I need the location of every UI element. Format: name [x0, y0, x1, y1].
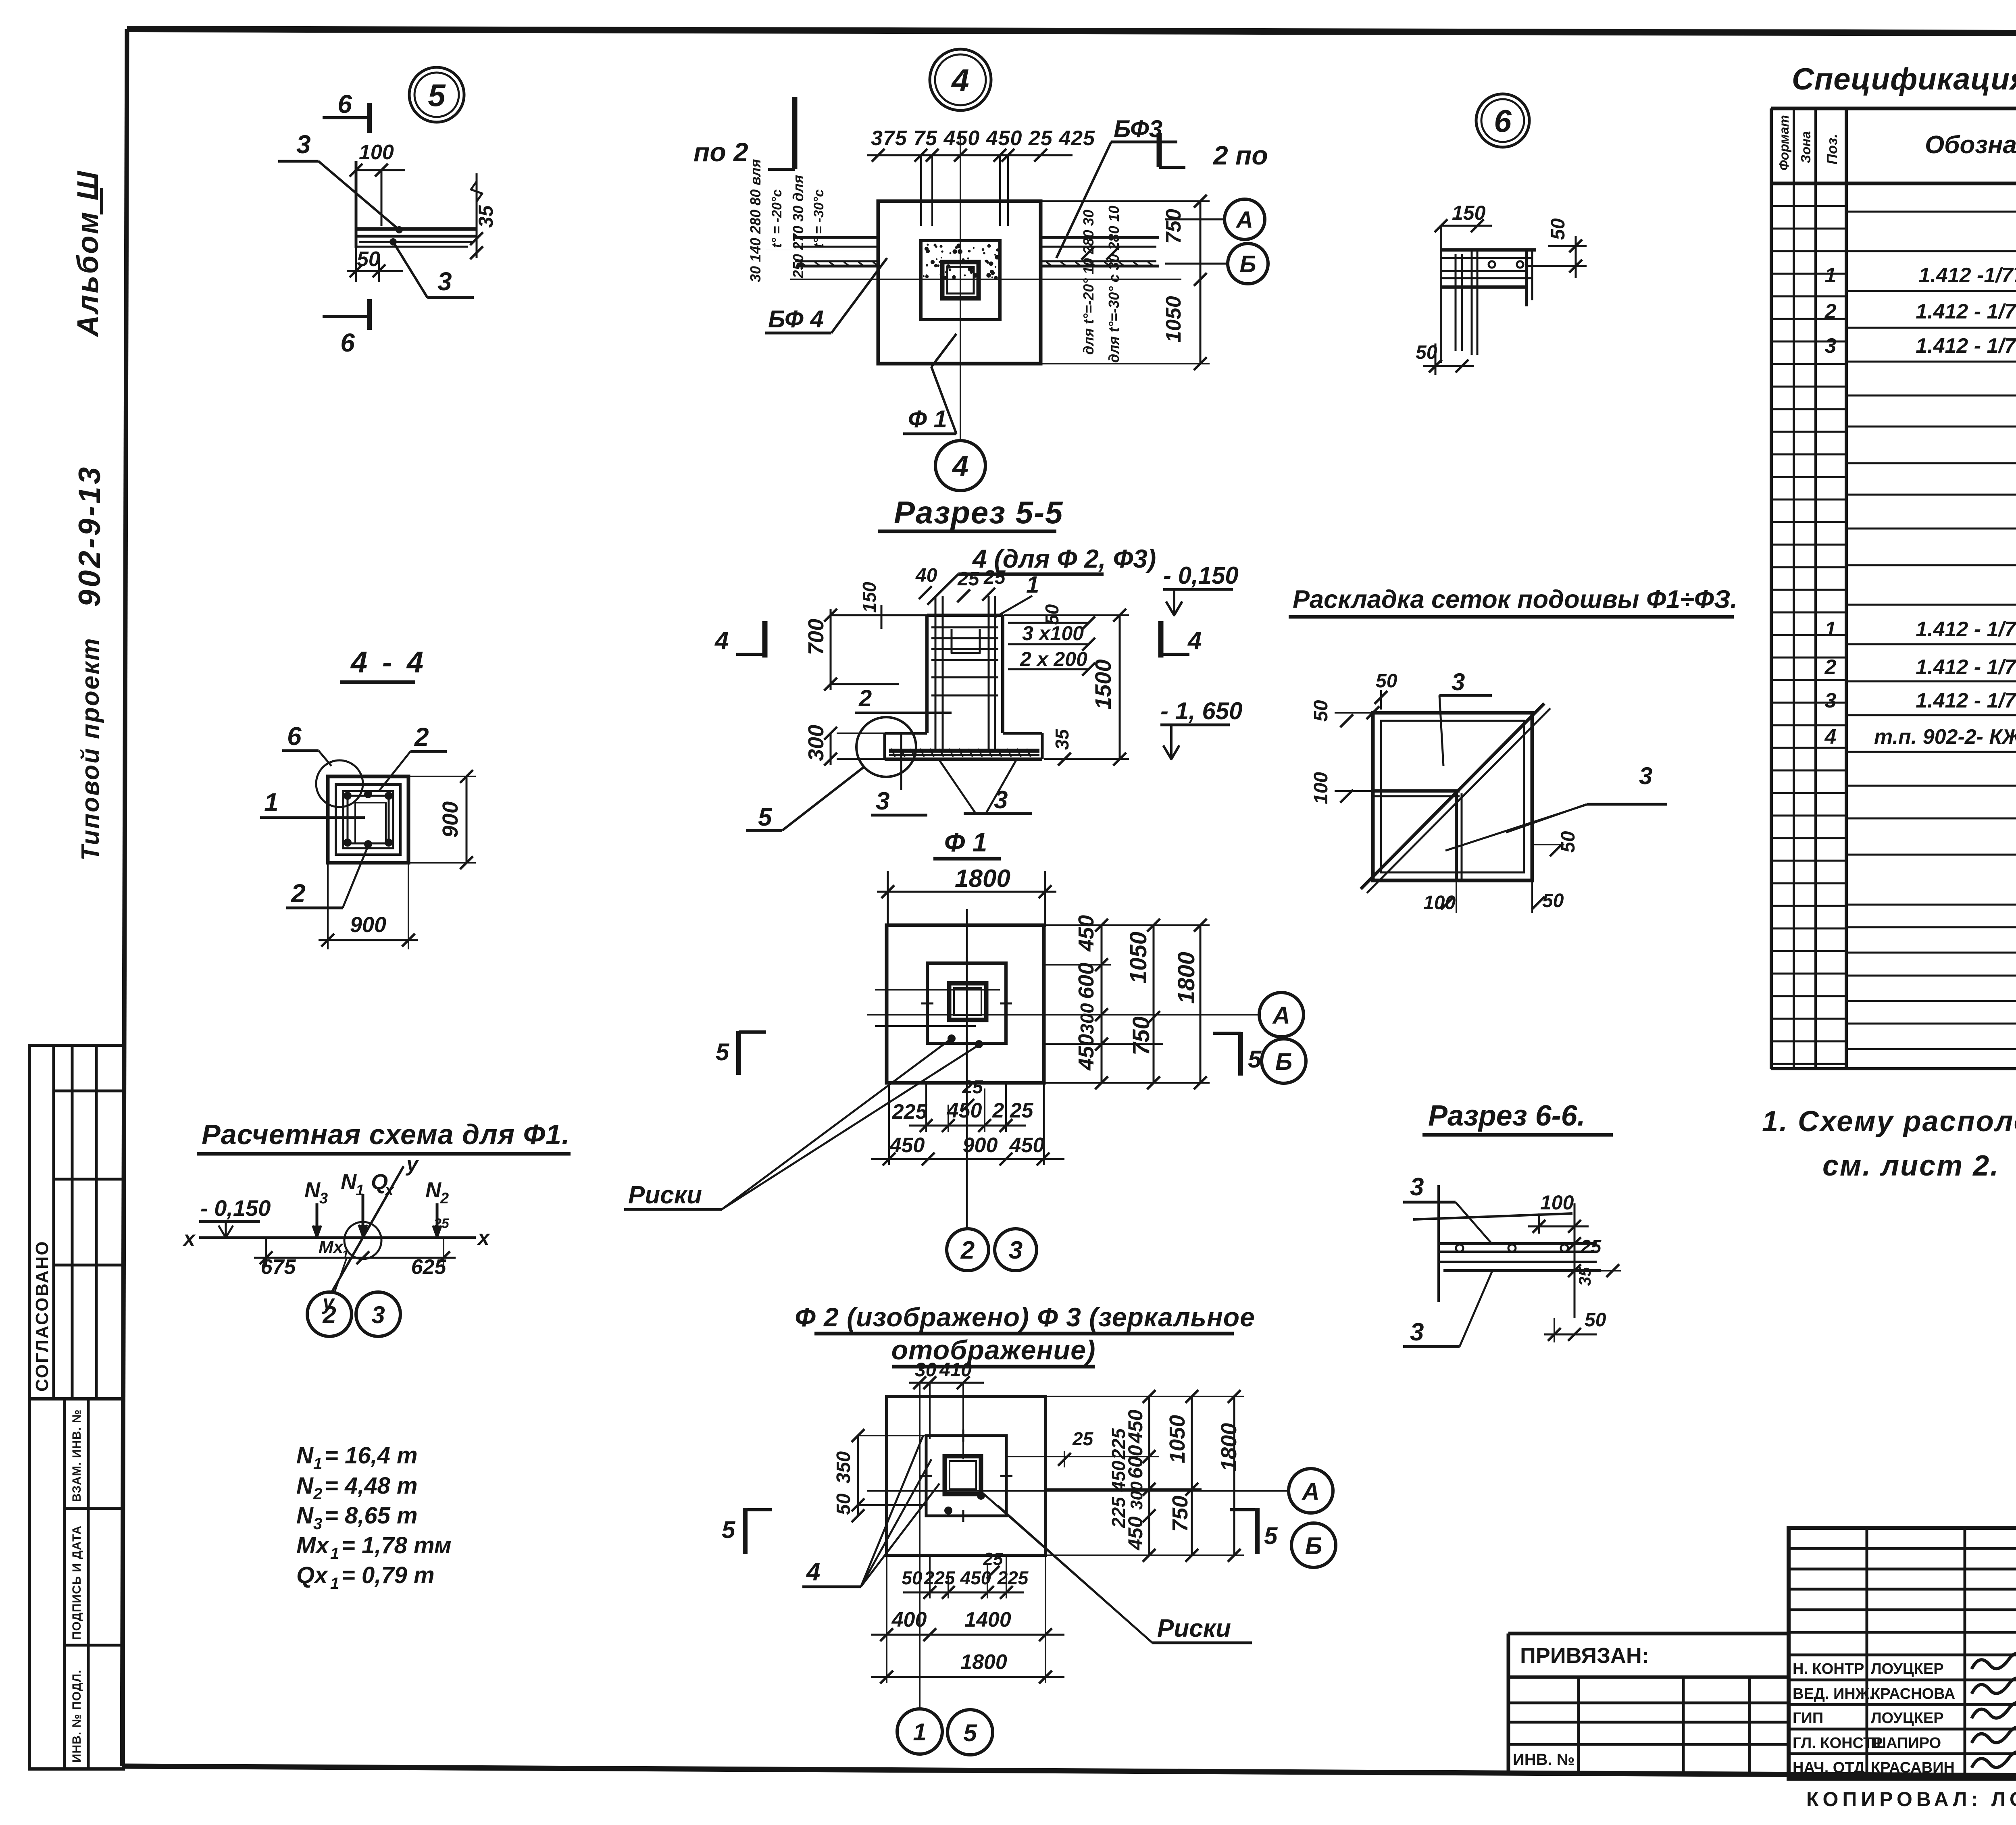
svg-text:3: 3 [1410, 1318, 1424, 1346]
svg-text:1: 1 [1825, 618, 1837, 641]
svg-text:3: 3 [1825, 689, 1837, 712]
svg-text:400: 400 [891, 1608, 927, 1631]
svg-text:1050: 1050 [1125, 932, 1152, 984]
svg-text:6: 6 [1494, 103, 1512, 139]
svg-text:ПРИВЯЗАН:: ПРИВЯЗАН: [1520, 1644, 1649, 1668]
svg-text:БФ 4: БФ 4 [768, 306, 824, 333]
svg-text:150: 150 [1452, 202, 1486, 224]
svg-text:Н. КОНТР: Н. КОНТР [1793, 1661, 1864, 1677]
svg-text:1500: 1500 [1090, 659, 1116, 710]
svg-text:ИНВ. № ПОДЛ.: ИНВ. № ПОДЛ. [70, 1669, 83, 1763]
svg-text:t° = -30°c: t° = -30°c [811, 189, 827, 248]
svg-text:300: 300 [1127, 1482, 1146, 1510]
svg-text:6: 6 [337, 89, 352, 119]
svg-text:700: 700 [804, 619, 828, 655]
svg-text:3: 3 [1639, 762, 1652, 789]
svg-text:Обозначение: Обозначение [1925, 131, 2016, 159]
svg-text:t° = -20°c: t° = -20°c [769, 189, 785, 248]
svg-text:225: 225 [924, 1567, 956, 1588]
svg-text:Типовой проект: Типовой проект [77, 637, 104, 861]
svg-text:1800: 1800 [1217, 1423, 1241, 1471]
svg-text:3: 3 [296, 130, 311, 159]
svg-text:Риски: Риски [1157, 1615, 1231, 1642]
svg-text:3: 3 [1825, 334, 1837, 358]
svg-text:1: 1 [342, 1248, 349, 1261]
svg-text:2: 2 [291, 879, 306, 908]
svg-text:750: 750 [1162, 209, 1185, 244]
svg-text:1: 1 [313, 1455, 322, 1473]
svg-text:375 75 450 450 25 425: 375 75 450 450 25 425 [871, 127, 1095, 150]
svg-text:5: 5 [1264, 1522, 1278, 1549]
svg-text:1: 1 [264, 788, 279, 817]
svg-text:2 по: 2 по [1212, 140, 1268, 170]
svg-text:30 140 280 80 вля: 30 140 280 80 вля [747, 159, 764, 282]
svg-text:4: 4 [1824, 725, 1837, 749]
svg-text:3: 3 [437, 267, 452, 296]
svg-text:1: 1 [1825, 264, 1837, 287]
svg-text:3: 3 [1009, 1236, 1023, 1264]
svg-text:ГИП: ГИП [1793, 1710, 1823, 1727]
svg-text:КРАСАВИН: КРАСАВИН [1871, 1759, 1955, 1776]
svg-text:Разрез 6-6.: Разрез 6-6. [1428, 1100, 1585, 1132]
svg-text:N: N [341, 1170, 357, 1194]
svg-text:1050: 1050 [1165, 1415, 1189, 1463]
svg-text:1400: 1400 [964, 1608, 1011, 1631]
svg-text:Ф 1: Ф 1 [944, 827, 987, 857]
svg-text:= 16,4 т: = 16,4 т [325, 1442, 418, 1469]
svg-text:4: 4 [1187, 627, 1202, 655]
svg-text:35: 35 [1052, 728, 1073, 750]
svg-text:50: 50 [1376, 670, 1397, 692]
svg-text:1: 1 [356, 1182, 364, 1199]
svg-text:225: 225 [997, 1567, 1029, 1588]
svg-text:1050: 1050 [1162, 296, 1185, 343]
svg-text:3: 3 [994, 786, 1008, 814]
svg-text:Б: Б [1239, 251, 1256, 277]
svg-text:4: 4 [714, 627, 729, 655]
svg-text:225: 225 [1108, 1428, 1129, 1460]
svg-text:50: 50 [1310, 700, 1332, 722]
svg-text:- 1, 650: - 1, 650 [1160, 697, 1242, 724]
svg-text:3: 3 [876, 787, 889, 815]
svg-text:1800: 1800 [955, 865, 1010, 893]
svg-text:4: 4 [951, 62, 969, 98]
svg-text:6: 6 [287, 722, 302, 751]
svg-text:КОПИРОВАЛ: ЛОГИНОВА: КОПИРОВАЛ: ЛОГИНОВА [1806, 1788, 2016, 1810]
svg-text:350: 350 [833, 1451, 854, 1484]
svg-text:450: 450 [947, 1099, 982, 1122]
svg-text:25: 25 [957, 568, 980, 590]
svg-text:100: 100 [1423, 892, 1456, 914]
svg-text:НАЧ. ОТД.: НАЧ. ОТД. [1793, 1759, 1869, 1776]
svg-text:Б: Б [1275, 1048, 1292, 1075]
svg-text:225: 225 [892, 1100, 928, 1124]
svg-text:- 0,150: - 0,150 [200, 1195, 271, 1221]
svg-text:х: х [477, 1226, 490, 1250]
svg-text:450: 450 [1009, 1134, 1045, 1157]
svg-text:4: 4 [952, 450, 968, 483]
svg-text:35: 35 [1575, 1267, 1594, 1286]
svg-text:3: 3 [319, 1190, 328, 1207]
svg-text:N: N [296, 1442, 314, 1469]
svg-text:ЛОУЦКЕР: ЛОУЦКЕР [1871, 1710, 1944, 1727]
svg-text:для t°=-30° с 30 280 10: для t°=-30° с 30 280 10 [1106, 206, 1122, 363]
svg-text:6: 6 [340, 328, 355, 357]
svg-text:1.412 - 1/77: 1.412 - 1/77 [1916, 300, 2016, 323]
svg-text:СОГЛАСОВАНО: СОГЛАСОВАНО [32, 1240, 52, 1392]
svg-text:2: 2 [1824, 656, 1837, 679]
svg-text:Раскладка сеток подошвы Ф1÷ФЗ.: Раскладка сеток подошвы Ф1÷ФЗ. [1293, 585, 1737, 614]
svg-text:х: х [182, 1227, 196, 1251]
svg-text:Расчетная схема для Ф1.: Расчетная схема для Ф1. [202, 1119, 570, 1150]
svg-text:902-9-13: 902-9-13 [73, 465, 107, 607]
svg-text:А: А [1272, 1002, 1290, 1029]
svg-text:= 4,48 т: = 4,48 т [325, 1473, 418, 1499]
svg-text:900: 900 [350, 913, 386, 937]
svg-text:3: 3 [1410, 1173, 1424, 1201]
svg-text:ПОДПИСЬ И ДАТА: ПОДПИСЬ И ДАТА [70, 1525, 83, 1640]
svg-text:ИНВ. №: ИНВ. № [1513, 1751, 1574, 1769]
svg-text:2: 2 [960, 1236, 975, 1264]
svg-text:2 25: 2 25 [992, 1099, 1033, 1122]
svg-text:750: 750 [1168, 1496, 1192, 1532]
svg-text:225: 225 [1108, 1496, 1129, 1528]
svg-text:Qх: Qх [296, 1562, 329, 1588]
svg-text:Разрез 5-5: Разрез 5-5 [894, 495, 1063, 530]
svg-text:50: 50 [833, 1493, 854, 1515]
svg-text:т.п. 902-2- КЖИ А1: т.п. 902-2- КЖИ А1 [1874, 725, 2016, 749]
svg-text:Риски: Риски [628, 1181, 702, 1209]
svg-text:КРАСНОВА: КРАСНОВА [1871, 1686, 1955, 1702]
svg-text:25: 25 [1072, 1428, 1094, 1449]
svg-text:5: 5 [428, 77, 446, 113]
svg-text:4 - 4: 4 - 4 [350, 645, 427, 679]
svg-text:900: 900 [963, 1134, 998, 1157]
svg-text:900: 900 [438, 801, 462, 838]
svg-text:Ф 2 (изображено) Ф 3 (зеркальн: Ф 2 (изображено) Ф 3 (зеркальное [795, 1302, 1255, 1332]
svg-text:4: 4 [806, 1558, 820, 1586]
svg-text:Мх: Мх [319, 1237, 344, 1257]
svg-text:1.412 - 1/77: 1.412 - 1/77 [1916, 656, 2016, 679]
svg-text:25: 25 [1580, 1236, 1602, 1257]
svg-text:675: 675 [261, 1255, 296, 1279]
svg-text:5: 5 [758, 803, 773, 831]
svg-text:А: А [1301, 1478, 1319, 1505]
svg-text:300: 300 [1077, 1003, 1098, 1034]
svg-text:1: 1 [913, 1719, 926, 1746]
svg-text:1800: 1800 [1173, 952, 1200, 1004]
svg-text:N: N [296, 1473, 314, 1499]
svg-text:ЛОУЦКЕР: ЛОУЦКЕР [1871, 1661, 1944, 1677]
svg-text:2: 2 [440, 1190, 449, 1207]
svg-text:1.412 - 1/77: 1.412 - 1/77 [1916, 618, 2016, 641]
svg-text:625: 625 [411, 1255, 447, 1279]
svg-text:Формат: Формат [1776, 115, 1791, 171]
svg-text:5: 5 [963, 1719, 977, 1746]
svg-text:750: 750 [1128, 1016, 1154, 1055]
svg-text:1.412 - 1/77: 1.412 - 1/77 [1916, 334, 2016, 358]
svg-text:25: 25 [983, 567, 1006, 588]
svg-text:25: 25 [983, 1549, 1003, 1569]
svg-text:50: 50 [1542, 890, 1564, 911]
svg-text:А: А [1235, 207, 1253, 233]
svg-text:для t°=-20° 10 280 30: для t°=-20° 10 280 30 [1080, 210, 1097, 355]
svg-text:450: 450 [1074, 1034, 1098, 1071]
svg-text:25: 25 [962, 1076, 983, 1097]
svg-text:5: 5 [716, 1038, 730, 1065]
svg-text:40: 40 [915, 565, 937, 586]
svg-text:2: 2 [313, 1485, 322, 1503]
svg-text:см. лист 2.: см. лист 2. [1822, 1150, 1999, 1182]
svg-text:35: 35 [475, 205, 497, 228]
svg-text:= 8,65 т: = 8,65 т [325, 1502, 418, 1529]
svg-text:Зона: Зона [1798, 131, 1813, 163]
svg-text:БФ3: БФ3 [1114, 115, 1162, 142]
svg-text:3: 3 [1452, 668, 1465, 695]
svg-text:50: 50 [1558, 831, 1579, 853]
svg-text:150: 150 [859, 582, 880, 613]
svg-text:Альбом Ш: Альбом Ш [71, 170, 104, 337]
svg-text:ГЛ. КОНСТР: ГЛ. КОНСТР [1793, 1735, 1883, 1752]
svg-text:по 2: по 2 [694, 137, 748, 167]
svg-text:ВЗАМ. ИНВ. №: ВЗАМ. ИНВ. № [70, 1409, 83, 1502]
svg-text:2: 2 [322, 1301, 336, 1328]
svg-text:50: 50 [1547, 218, 1569, 240]
svg-text:1. Схему расположения фундамен: 1. Схему расположения фундаментов Ф1÷Ф3 [1762, 1105, 2016, 1138]
svg-text:Спецификация монолитных фунд: Спецификация монолитных фундаментов. [1792, 62, 2016, 96]
svg-text:3 х100: 3 х100 [1022, 622, 1084, 645]
svg-text:1: 1 [330, 1545, 339, 1563]
svg-text:1.412 - 1/77: 1.412 - 1/77 [1916, 689, 2016, 712]
svg-text:Мх: Мх [296, 1532, 330, 1559]
svg-text:Ф 1: Ф 1 [908, 406, 947, 433]
svg-text:Поз.: Поз. [1824, 134, 1840, 164]
svg-text:2 х 200: 2 х 200 [1020, 648, 1087, 670]
svg-text:у: у [405, 1153, 419, 1176]
svg-text:2: 2 [414, 722, 429, 751]
svg-text:- 0,150: - 0,150 [1163, 562, 1239, 589]
svg-text:3: 3 [313, 1515, 322, 1533]
svg-text:100: 100 [359, 141, 394, 164]
svg-text:300: 300 [804, 725, 828, 761]
svg-text:450: 450 [1108, 1461, 1129, 1492]
svg-text:50: 50 [357, 248, 380, 271]
svg-text:Б: Б [1305, 1532, 1322, 1559]
svg-text:ВЕД. ИНЖ.: ВЕД. ИНЖ. [1793, 1686, 1874, 1702]
svg-text:N: N [296, 1502, 314, 1529]
svg-text:50: 50 [1416, 342, 1437, 363]
svg-text:5: 5 [1248, 1046, 1262, 1073]
svg-text:25: 25 [433, 1216, 450, 1231]
svg-text:450: 450 [889, 1134, 925, 1157]
svg-text:250 270 30 для: 250 270 30 для [790, 175, 806, 279]
svg-text:100: 100 [1310, 772, 1332, 804]
svg-text:ШАПИРО: ШАПИРО [1871, 1735, 1941, 1752]
svg-text:1.412 -1/77: 1.412 -1/77 [1918, 264, 2016, 287]
svg-text:5: 5 [722, 1516, 736, 1543]
svg-text:100: 100 [1540, 1191, 1574, 1214]
svg-text:= 1,78 тм: = 1,78 тм [342, 1532, 452, 1559]
svg-text:50: 50 [902, 1567, 923, 1588]
svg-text:N: N [425, 1178, 442, 1202]
svg-text:1800: 1800 [960, 1650, 1007, 1674]
svg-text:= 0,79 т: = 0,79 т [342, 1562, 435, 1588]
svg-text:3: 3 [371, 1301, 385, 1328]
svg-text:600: 600 [1074, 963, 1098, 999]
svg-text:2: 2 [1824, 300, 1837, 323]
svg-text:1: 1 [1026, 572, 1039, 598]
svg-text:N: N [304, 1178, 321, 1202]
svg-text:1: 1 [330, 1575, 339, 1592]
svg-text:2: 2 [858, 685, 872, 712]
svg-text:50: 50 [1585, 1309, 1606, 1331]
svg-text:450: 450 [1074, 915, 1098, 952]
